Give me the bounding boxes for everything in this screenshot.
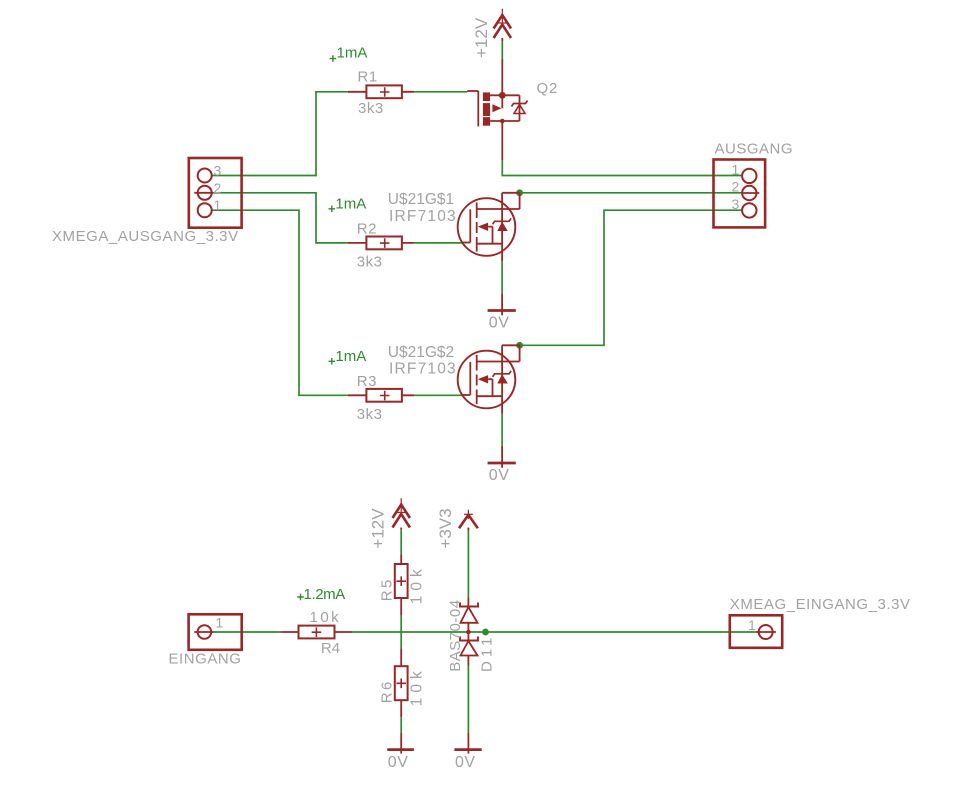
substrate arrow U$21G$1 [478,223,488,231]
wire R4 to XMEAG_EINGANG node [352,631,755,633]
wire XMEGA pin2 to R2 [212,193,348,243]
svg-text:+3V3: +3V3 [436,508,455,548]
wire R1 to Q2 gate [414,91,467,93]
diode D11 BAS70-04 [460,598,478,666]
connector AUSGANG [714,140,794,227]
bottom line D11 [467,656,469,666]
transistor U$21G$1 [458,193,520,261]
svg-text:2: 2 [214,180,222,196]
resistor R5 [379,554,426,615]
svg-text:AUSGANG: AUSGANG [715,140,794,157]
svg-text:+12V: +12V [472,17,491,58]
wire XMEGA pin1 to R3 [212,210,348,395]
wire U$21G$2 source to ground [501,414,503,446]
gate bar Q2 [477,91,479,126]
supply +12V bottom [393,498,410,529]
channel squares Q2 [483,92,490,125]
svg-text:1mA: 1mA [335,348,366,365]
pad circle XMEGA pin3 [198,169,212,183]
substrate line Q2 [501,95,503,108]
svg-text:0V: 0V [489,315,510,332]
pad circle AUSGANG pin3 [742,203,756,217]
drain link U$21G$1 [477,193,520,209]
connector XMEAG_EINGANG_3.3V [730,596,911,648]
ground 0V under U$21G$1 [488,293,516,315]
supply +12V top [494,9,511,96]
svg-text:R1: R1 [358,68,378,85]
resistor R2 [348,221,414,271]
svg-text:0V: 0V [388,754,409,771]
resistor R1 [348,68,414,117]
anode line upper D11 [467,598,469,607]
substrate link U$21G$2 [488,379,492,396]
body diode U$21G$1 [493,218,512,224]
pad circle EINGANG pin1 [198,625,212,639]
drain junction dot Q2 [500,119,505,124]
gate lead U$21G$2 [462,394,470,396]
substrate link U$21G$1 [488,227,492,244]
svg-text:10k: 10k [409,564,426,604]
gate lead U$21G$1 [462,242,470,244]
pin stub XMEGA pin2 [194,192,213,194]
gate bar U$21G$2 [469,362,471,395]
svg-text:+12V: +12V [369,508,388,549]
pad circle AUSGANG pin1 [742,169,756,183]
substrate arrow Q2 [492,104,501,112]
svg-text:R6: R6 [379,679,396,703]
svg-text:XMEAG_EINGANG_3.3V: XMEAG_EINGANG_3.3V [730,596,911,613]
svg-text:R2: R2 [357,221,377,238]
svg-text:XMEGA_AUSGANG_3.3V: XMEGA_AUSGANG_3.3V [52,228,239,245]
svg-text:1mA: 1mA [335,196,366,213]
svg-text:10k: 10k [409,666,426,706]
pad circle XMEGA pin2 [198,186,212,200]
junction dot at U$21G$2 drain [516,342,523,349]
body diode U$21G$2 [493,371,512,377]
wire EINGANG pin1 to R4 [214,631,280,633]
svg-text:1: 1 [748,617,756,633]
resistor R6 [379,648,426,717]
resistor R3 [348,373,414,423]
svg-text:IRF7103: IRF7103 [389,208,457,225]
svg-text:BAS70-04: BAS70-04 [447,599,464,671]
wire +3V3 to D11 [467,531,469,598]
triangle upper D11 [461,607,478,623]
drain-source line U$21G$1 [501,193,503,261]
current label 1mA at R1 [330,45,368,62]
body circle U$21G$2 [458,351,516,409]
mid line D11 [467,623,469,641]
transistor Q2 [467,91,527,160]
supply +3V3 [459,510,478,531]
svg-text:1.2mA: 1.2mA [304,586,346,603]
wire AUSGANG pin3 to U$21G$2 drain [520,210,743,345]
gate lead Q2 [467,90,478,92]
pad circle AUSGANG pin2 [742,186,756,200]
svg-text:0V: 0V [489,467,510,484]
wire U$21G$1 source to ground [501,261,503,293]
svg-text:1: 1 [732,162,740,178]
svg-text:R4: R4 [321,640,340,657]
ground 0V under D11 [454,733,481,754]
ground 0V under U$21G$2 [488,446,516,468]
junction dot red D11 [466,630,471,635]
gate bar U$21G$1 [469,209,471,242]
pin stub EINGANG pin1 [194,631,214,633]
svg-text:R5: R5 [379,577,396,601]
substrate arrow U$21G$2 [478,375,488,383]
svg-text:3: 3 [732,196,740,212]
pad circle XMEAG pin1 [759,625,773,639]
drain lead Q2 [501,121,503,160]
svg-text:Q2: Q2 [537,80,559,97]
source link U$21G$1 [477,243,502,245]
wire R3 to U$21G$2 gate [414,394,462,396]
pad circle XMEGA pin1 [198,203,212,217]
drain link U$21G$2 [477,345,520,361]
svg-text:10k: 10k [310,609,342,626]
svg-text:U$21G$2: U$21G$2 [388,344,454,361]
svg-text:1: 1 [216,615,224,631]
connector XMEGA_AUSGANG_3.3V [52,158,242,245]
wire U$21G$1 drain to AUSGANG pin2 [520,192,743,194]
junction dot at D11 node [482,629,489,636]
body diode Q2 [512,101,528,107]
pin stub XMEAG pin1 [755,631,776,633]
source rail Q2 [490,95,519,121]
connector EINGANG [169,614,242,667]
junction dot at U$21G$1 drain [516,189,523,196]
cathode bar upper D11 [460,603,478,607]
svg-text:3k3: 3k3 [357,406,383,423]
svg-text:1: 1 [214,197,222,213]
wire +12V to R5 [400,530,402,555]
current label 1.2mA at R4 [297,586,345,603]
cathode bar lower D11 [460,637,478,641]
svg-text:U$21G$1: U$21G$1 [388,191,454,208]
transistor U$21G$2 [458,345,520,414]
current label 1mA at R2 [329,196,367,213]
svg-text:EINGANG: EINGANG [169,650,242,667]
wire R5 to R6 through node [400,616,402,649]
drain-source line U$21G$2 [501,345,503,414]
svg-text:0V: 0V [455,754,476,771]
wire +12V to Q2 source [501,41,503,59]
channel dashes U$21G$1 [476,203,478,252]
wire D11 to ground [467,666,469,733]
svg-text:3k3: 3k3 [358,100,384,117]
wire R6 to ground [400,717,402,733]
body circle U$21G$1 [458,198,516,256]
svg-text:IRF7103: IRF7103 [389,360,457,377]
wire R2 to U$21G$1 gate [414,242,462,244]
svg-text:3k3: 3k3 [357,254,383,271]
pin stub AUSGANG pin2 [742,192,759,194]
ground 0V under R6 [387,733,414,754]
source link U$21G$2 [477,395,502,397]
svg-text:R3: R3 [357,373,377,390]
source junction dot Q2 [499,92,506,99]
svg-text:2: 2 [732,179,740,195]
svg-text:1mA: 1mA [337,45,368,62]
resistor R4 [280,609,352,657]
wire XMEGA pin3 to R1 [212,92,348,176]
svg-text:3: 3 [214,163,222,179]
triangle lower D11 [461,641,478,656]
current label 1mA at R3 [329,348,367,365]
svg-text:D11: D11 [479,634,496,672]
channel dashes U$21G$2 [476,355,478,404]
wire Q2 drain to AUSGANG pin1 [502,160,742,176]
